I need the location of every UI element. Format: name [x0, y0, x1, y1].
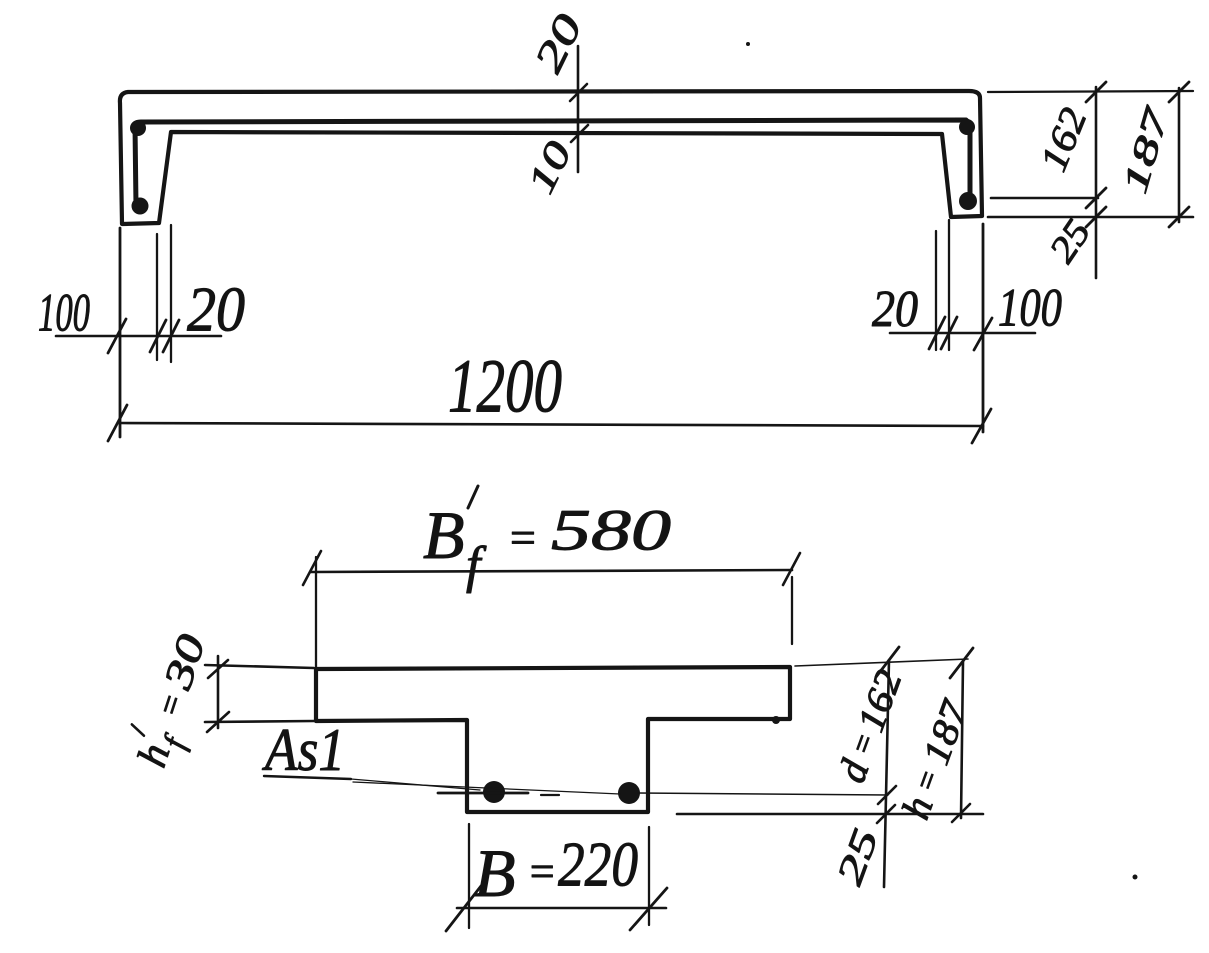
- web rebar dot left: [483, 781, 505, 803]
- tick 25 bottom: [1086, 207, 1106, 227]
- rebar dot bottom-right: [959, 192, 977, 210]
- svg-text:20: 20: [872, 281, 918, 338]
- right dims below rib: inner extension 1: [935, 231, 937, 350]
- svg-text:162: 162: [1032, 102, 1095, 177]
- svg-text:1200: 1200: [448, 344, 562, 428]
- svg-text:=: =: [150, 689, 192, 722]
- double tick right 20 b: [941, 317, 957, 349]
- B'f dimension line: [311, 570, 792, 572]
- bottom section: T outline: [316, 667, 790, 812]
- B tick left: [446, 886, 481, 931]
- h dimension line: [961, 662, 963, 818]
- stray ink speck bottom right: [1133, 875, 1138, 880]
- svg-text:580: 580: [551, 497, 671, 562]
- left dims: outer extension line: [119, 228, 122, 437]
- svg-text:f: f: [466, 537, 487, 594]
- left dims: rib inner extension 2: [170, 225, 172, 362]
- B dimension left extension: [468, 824, 470, 928]
- svg-text:30: 30: [154, 629, 214, 696]
- tick d at rebar level: [878, 786, 896, 804]
- svg-text:25: 25: [829, 824, 887, 891]
- tick 162 top: [1086, 82, 1106, 102]
- As1 leader line 2: [353, 782, 620, 794]
- B'f left extension: [315, 557, 317, 668]
- top section: rebar bar: [135, 120, 970, 206]
- tick 187 top: [1169, 82, 1189, 102]
- svg-text:220: 220: [558, 829, 638, 900]
- tick right 100: [974, 318, 992, 350]
- B tick right: [630, 888, 667, 930]
- svg-text:=: =: [507, 512, 538, 563]
- ink blob flange bottom: [772, 716, 780, 724]
- svg-text:100: 100: [38, 282, 90, 342]
- tick at soffit: [571, 125, 588, 142]
- right dims: outer extension: [982, 224, 985, 432]
- double tick right 20 a: [929, 317, 945, 349]
- web rebar dot right: [618, 782, 640, 804]
- center dimension line: [577, 46, 580, 172]
- tick 187 bottom: [1169, 207, 1189, 227]
- d dimension line: [884, 660, 889, 887]
- rebar dot top-right: [959, 119, 975, 135]
- tick d top: [876, 647, 899, 677]
- svg-text:=: =: [906, 764, 947, 797]
- B dimension line: [457, 907, 666, 910]
- tick at slab top: [570, 84, 587, 101]
- svg-text:187: 187: [1115, 102, 1177, 198]
- svg-text:100: 100: [998, 277, 1062, 337]
- small dash on leader: [541, 794, 559, 796]
- rebar level extension to d line: [638, 793, 888, 795]
- rebar dot bottom-left: [132, 198, 149, 215]
- right dims: 162 bottom extension line: [991, 197, 1098, 200]
- h'f top tick: [208, 660, 228, 678]
- As1 leader line 1: [351, 779, 480, 790]
- dimension line 187: [1178, 88, 1181, 222]
- svg-text:20: 20: [187, 274, 245, 345]
- double tick left 20 a: [150, 320, 166, 352]
- svg-text:As1: As1: [261, 717, 345, 783]
- h'f bottom extension: [205, 721, 314, 722]
- double tick left 20 b: [163, 320, 179, 352]
- rebar dot top-left: [130, 120, 146, 136]
- dimension line 162/25: [1095, 87, 1098, 278]
- stray ink speck top: [746, 42, 750, 46]
- B'f right extension: [791, 577, 793, 644]
- B dimension right extension: [648, 827, 650, 925]
- left dims: rib inner extension 1: [156, 234, 158, 360]
- label d = 162: [829, 664, 911, 788]
- svg-text:10: 10: [520, 135, 581, 200]
- dimension line 100/20 left: [56, 335, 221, 338]
- flange top right extension: [795, 659, 968, 666]
- tick d at web bottom: [877, 805, 895, 823]
- short bar through left dot: [438, 792, 528, 795]
- svg-text:162: 162: [850, 665, 911, 738]
- right dims: rib bottom extension line: [988, 216, 1193, 219]
- svg-text:20: 20: [525, 7, 591, 79]
- label h = 187: [892, 693, 977, 825]
- svg-text:B: B: [423, 497, 465, 573]
- B'f left tick: [303, 551, 321, 585]
- svg-text:187: 187: [915, 694, 977, 771]
- dimension line 20/100 right: [890, 332, 1035, 335]
- right dims below rib: inner extension 2: [948, 220, 950, 350]
- label B'f: prime: [468, 486, 478, 508]
- h'f bottom tick: [207, 712, 229, 732]
- web bottom extension line: [677, 813, 983, 816]
- svg-text:=: =: [527, 847, 557, 896]
- label h'f = 30: [122, 626, 225, 775]
- tick left 100: [108, 319, 126, 353]
- h'f top extension: [205, 665, 314, 668]
- top section: slab outline: [120, 91, 982, 224]
- dimension line 1200: [120, 423, 983, 426]
- B'f right tick: [783, 553, 800, 585]
- tick 1200 left: [108, 405, 127, 441]
- svg-text:B: B: [474, 835, 516, 911]
- tick 162 bottom: [1086, 188, 1106, 208]
- tick 1200 right: [972, 409, 991, 443]
- h'f dimension line: [217, 656, 220, 728]
- tick h bottom: [952, 804, 970, 822]
- tick h top: [950, 648, 973, 678]
- right dims: top extension line: [988, 91, 1193, 92]
- As1 underline: [264, 776, 351, 779]
